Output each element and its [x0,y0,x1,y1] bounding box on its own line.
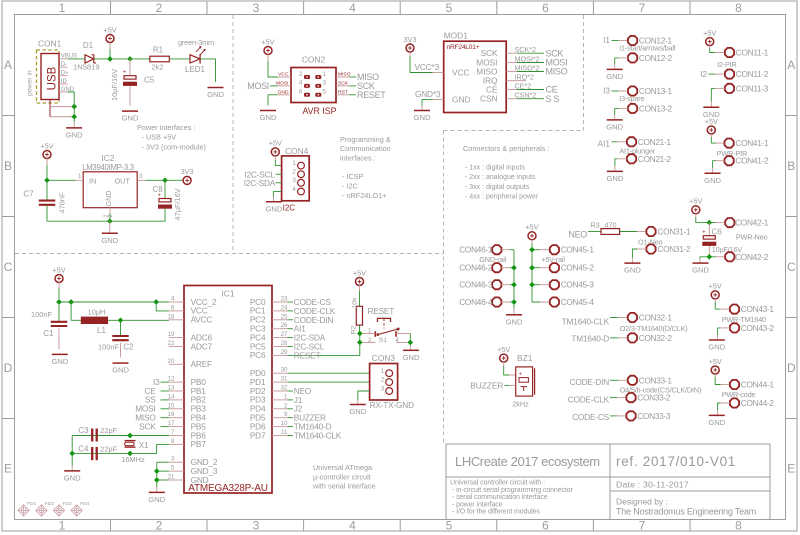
svg-text:IN: IN [89,176,96,185]
svg-text:25: 25 [281,313,288,320]
svg-text:21: 21 [168,474,175,481]
svg-text:+5V: +5V [705,117,718,126]
ground I2C header [265,197,282,213]
svg-text:1: 1 [59,1,66,15]
resistor R2 10k [351,297,363,334]
svg-text:5: 5 [446,519,453,533]
net RESET wire [288,342,360,360]
svg-text:3: 3 [171,456,175,463]
net labels PB0-PB5 [135,377,169,432]
svg-text:CON33-1: CON33-1 [639,375,673,385]
svg-text:3: 3 [253,519,260,533]
svg-text:23: 23 [281,296,288,303]
svg-text:- 1xx : digital inputs: - 1xx : digital inputs [465,165,525,172]
ground under CON1 [66,92,83,140]
connector group CON12 (I1) [603,35,676,81]
wires regulator section [44,177,183,224]
svg-text:The Nostradomus Engineering Te: The Nostradomus Engineering Team [616,507,756,517]
svg-text:I1: I1 [603,35,610,45]
svg-text:7: 7 [639,1,646,15]
svg-text:AVR ISP: AVR ISP [302,106,336,116]
connector group CON46 (GND rail) [459,245,523,327]
svg-text:2: 2 [156,519,163,533]
svg-text:OUT: OUT [115,176,131,185]
svg-text:CON11-2: CON11-2 [736,69,769,79]
svg-text:2: 2 [156,1,163,15]
svg-text:22pF: 22pF [100,426,117,435]
svg-text:MISO*2: MISO*2 [515,63,540,72]
svg-text:47µF/16V: 47µF/16V [173,188,182,220]
svg-text:I3: I3 [603,86,610,96]
capacitor C7 470nF [23,190,66,214]
connector group CON41 (PWR-PIR) [704,117,769,185]
svg-text:1: 1 [292,160,296,167]
crystal X1 16MHz [121,441,149,464]
capacitor C5 10uF/16V [110,59,155,123]
wires I2C header [244,169,282,197]
svg-text:BZ1: BZ1 [517,353,533,363]
svg-text:FD1: FD1 [27,501,36,507]
ground serial connector [349,391,369,416]
svg-text:CON42-1: CON42-1 [735,218,769,228]
svg-text:AI1: AI1 [598,139,611,149]
svg-text:- 2xx : analogue inputs: - 2xx : analogue inputs [465,174,536,181]
svg-text:CE*2: CE*2 [515,81,532,90]
svg-text:C6: C6 [712,227,723,236]
svg-text:green-3mm: green-3mm [178,38,214,47]
svg-text:8: 8 [735,519,742,533]
svg-text:PD7: PD7 [250,430,266,440]
svg-text:E: E [4,462,12,476]
net labels MISO SCK RESET [349,72,386,100]
svg-text:19: 19 [168,331,175,338]
svg-text:CON11-1: CON11-1 [736,48,769,58]
svg-text:LED1: LED1 [185,65,206,74]
note universal atmega [312,463,375,490]
svg-text:CODE-DIN: CODE-DIN [570,377,610,387]
svg-text:GND: GND [265,204,282,213]
connector CON4 I2C [282,146,310,213]
capacitor C1 100nF [31,302,69,366]
svg-text:D1: D1 [83,41,94,50]
supply 3V3 (module) [404,35,433,73]
svg-text:2kHz: 2kHz [512,399,529,408]
svg-text:CON45-3: CON45-3 [561,280,595,290]
svg-text:C2: C2 [123,343,134,352]
svg-text:GND: GND [66,131,83,140]
svg-text:GND: GND [349,407,366,416]
svg-text:CON31-1: CON31-1 [657,227,691,237]
svg-text:nRF24L01+: nRF24L01+ [447,44,480,51]
svg-text:+5V: +5V [497,345,510,354]
supply +5V (reset) [353,268,366,306]
svg-text:D: D [4,361,13,375]
IC IC1 ATMEGA328P-AU [168,286,288,494]
svg-text:PC6: PC6 [250,350,266,360]
svg-text:9: 9 [284,411,288,418]
svg-text:Universal ATmega: Universal ATmega [313,463,373,472]
ground module [414,106,431,123]
svg-text:CODE-CLK: CODE-CLK [568,394,610,404]
svg-text:Designed by :: Designed by : [616,497,668,507]
buzzer BZ1 2kHz [470,345,534,409]
connector CON3 serial [370,353,414,410]
svg-text:RESET: RESET [367,306,394,316]
svg-text:GND: GND [708,343,725,352]
supply +5V (MCU) [52,265,65,302]
svg-text:- USB +5V: - USB +5V [142,133,177,142]
svg-text:GND: GND [452,94,470,104]
svg-text:C: C [4,260,13,274]
svg-text:µ-controller circuit: µ-controller circuit [313,472,371,481]
svg-text:22: 22 [168,340,175,347]
note programming interfaces [340,135,391,200]
svg-text:CON1: CON1 [38,39,62,49]
svg-text:CON33-3: CON33-3 [637,411,671,421]
svg-text:470: 470 [604,220,616,229]
svg-text:4: 4 [299,80,303,87]
svg-text:27: 27 [281,331,288,338]
svg-text:+: + [702,230,705,236]
net GND*3 wire [415,89,441,106]
svg-text:1: 1 [323,71,327,78]
svg-text:S S: S S [546,94,560,104]
svg-text:5: 5 [171,465,175,472]
svg-text:CON2: CON2 [302,55,326,65]
connector group CON33 (CODE) [568,375,701,422]
svg-text:CON13-2: CON13-2 [639,103,673,113]
svg-text:GND: GND [112,366,129,375]
connector group CON45 (+5V rail) [525,223,594,307]
svg-text:16: 16 [168,411,175,418]
svg-text:CON3: CON3 [372,353,396,363]
svg-text:LHCreate 2017 ecosystem: LHCreate 2017 ecosystem [455,454,600,469]
svg-text:VCC*3: VCC*3 [415,62,440,72]
resistor R1 2k2 [150,46,170,72]
svg-text:C4: C4 [78,444,89,453]
svg-text:CON45-1: CON45-1 [561,245,595,255]
svg-text:5: 5 [446,1,453,15]
svg-text:24: 24 [281,304,288,311]
svg-text:O2/3-TM1640(D/CLK): O2/3-TM1640(D/CLK) [620,324,688,333]
svg-text:GND: GND [704,176,721,185]
svg-text:Connectors & peripherals :: Connectors & peripherals : [463,144,549,153]
svg-text:12: 12 [168,376,175,383]
svg-text:I1-start/arrows/ball: I1-start/arrows/ball [619,44,676,53]
svg-text:S1: S1 [379,337,387,344]
svg-text:6: 6 [542,519,549,533]
svg-text:R1: R1 [153,46,164,55]
svg-text:CON21-2: CON21-2 [638,154,672,164]
svg-text:+: + [123,70,126,76]
svg-text:IRQ*2: IRQ*2 [515,73,534,82]
svg-text:E: E [787,462,795,476]
svg-text:3: 3 [381,386,385,393]
svg-text:ref. 2017/010-V01: ref. 2017/010-V01 [616,454,736,469]
svg-text:CON45-4: CON45-4 [561,297,595,307]
svg-text:GND: GND [506,317,523,326]
LED LED1 green-3mm [169,38,224,99]
svg-text:I2: I2 [700,69,707,79]
svg-text:10µF/16V: 10µF/16V [110,69,119,101]
svg-text:GND: GND [122,114,139,123]
svg-text:2: 2 [299,71,303,78]
svg-text:Universal controller circuit w: Universal controller circuit with : [450,480,545,487]
svg-text:CON46-3: CON46-3 [459,280,493,290]
svg-text:11: 11 [281,429,288,436]
svg-text:29: 29 [281,349,288,356]
svg-text:L1: L1 [97,326,106,335]
svg-text:GND: GND [64,474,81,483]
note power interfaces [137,123,206,152]
svg-text:CON33-2: CON33-2 [637,393,671,403]
svg-text:A: A [787,58,795,72]
svg-text:CON41-2: CON41-2 [735,156,769,166]
svg-text:CON43-2: CON43-2 [741,323,775,333]
svg-text:- in-circuit serial programmin: - in-circuit serial programming connecto… [452,487,574,494]
svg-text:R3: R3 [590,220,599,229]
wires crystal section [64,433,169,483]
svg-text:GND: GND [708,418,725,427]
svg-text:Programming &: Programming & [340,135,391,144]
svg-text:- 4xx : peripheral power: - 4xx : peripheral power [465,194,539,201]
svg-text:MOD1: MOD1 [444,31,469,41]
svg-text:1: 1 [284,393,288,400]
svg-text:+5V-rail: +5V-rail [541,255,565,264]
svg-text:CON11-3: CON11-3 [736,83,769,93]
svg-text:GND: GND [51,357,68,366]
svg-text:8: 8 [171,438,175,445]
svg-text:6: 6 [171,304,175,311]
wires AVR ISP left [247,81,277,106]
svg-text:CON4: CON4 [285,146,309,156]
svg-text:+5V: +5V [52,265,65,274]
svg-text:32: 32 [281,385,288,392]
title block [446,444,770,520]
svg-text:I2C-SDA: I2C-SDA [244,178,276,188]
svg-text:+5V: +5V [689,197,702,206]
svg-text:10k: 10k [352,297,359,309]
svg-text:USB: USB [46,66,58,90]
svg-text:MOSI: MOSI [247,81,269,91]
svg-text:14: 14 [168,393,175,400]
capacitor C6 and connector CON42 (PWR-Neo) [689,197,769,275]
supply +5V (regulator input) [40,141,53,180]
svg-text:+5V: +5V [709,282,722,291]
svg-text:BUZZER: BUZZER [470,380,503,390]
svg-text:CON21-1: CON21-1 [638,137,672,147]
wires +5V to VCC pins [56,299,169,311]
svg-text:- 3xx : digital outputs: - 3xx : digital outputs [465,184,530,191]
svg-text:17: 17 [168,420,175,427]
capacitor C2 100nF [98,320,134,374]
capacitor C8 47uF/16V [153,185,183,221]
svg-text:4: 4 [292,186,296,193]
svg-text:CODE-CS: CODE-CS [572,412,610,422]
svg-text:CON44-1: CON44-1 [741,380,775,390]
connector CON1 (USB, power in) [27,39,78,117]
svg-text:GND: GND [692,266,709,275]
net labels PD0-PD7 [288,373,370,440]
svg-text:GND: GND [207,90,224,99]
connector CON2 AVR ISP [276,55,351,116]
svg-text:- serial communication interfa: - serial communication interface [452,494,548,501]
svg-text:15: 15 [168,402,175,409]
svg-text:3V3: 3V3 [181,167,194,176]
svg-text:CON44-2: CON44-2 [741,398,775,408]
svg-text:3V3: 3V3 [404,35,417,44]
net labels PC0-PC5 [288,297,336,352]
svg-text:CON43-1: CON43-1 [741,304,775,314]
supply +5V (AVR ISP) [261,37,277,77]
svg-text:IC1: IC1 [221,289,234,299]
svg-text:VCC: VCC [452,67,470,77]
svg-text:GND: GND [414,113,431,122]
svg-text:I3-spare: I3-spare [619,94,644,103]
svg-text:- I2C: - I2C [342,182,358,191]
svg-text:GND: GND [260,113,277,122]
svg-text:CON46-4: CON46-4 [459,297,493,307]
ground MCU rail [148,462,169,504]
connector group CON32 (TM1640) [562,313,688,344]
fiducial marks FD1-FD4 [18,501,90,516]
svg-text:I2-PIR: I2-PIR [717,60,736,69]
svg-text:28: 28 [281,340,288,347]
svg-text:- I/O for the different module: - I/O for the different modules [452,509,540,516]
svg-text:C3: C3 [78,426,89,435]
svg-text:CON42-2: CON42-2 [735,252,769,262]
svg-text:2k2: 2k2 [152,63,164,72]
svg-text:- power interface: - power interface [452,501,503,508]
svg-text:C: C [787,260,796,274]
svg-text:C5: C5 [144,76,155,85]
svg-text:1: 1 [59,519,66,533]
svg-text:1: 1 [78,173,82,180]
svg-text:6: 6 [299,89,303,96]
svg-text:2: 2 [292,169,296,176]
svg-text:+5V: +5V [269,139,282,148]
svg-text:X1: X1 [139,441,149,450]
svg-text:GND*3: GND*3 [415,89,441,99]
svg-text:AVCC: AVCC [191,315,213,325]
svg-text:1N5819: 1N5819 [73,63,100,72]
svg-text:7: 7 [639,519,646,533]
svg-text:26: 26 [281,322,288,329]
connector group CON44 (PWR-code) [708,357,774,427]
svg-text:interfaces :: interfaces : [340,153,376,162]
svg-text:100nF: 100nF [31,310,52,319]
svg-text:FD3: FD3 [63,501,72,507]
svg-text:GND: GND [101,236,118,245]
svg-text:31: 31 [281,376,288,383]
svg-text:7: 7 [171,429,175,436]
svg-text:20: 20 [168,358,175,365]
svg-text:CSN: CSN [480,94,498,104]
svg-text:100nF: 100nF [98,343,119,352]
ground regulator rail [101,221,118,245]
svg-text:ID: ID [61,79,68,85]
module net labels [515,45,568,104]
svg-text:Date : 30-11-2017: Date : 30-11-2017 [616,480,689,490]
svg-text:+5V: +5V [40,141,53,150]
svg-text:I2C: I2C [283,204,296,213]
svg-text:+5V: +5V [261,37,274,46]
ground AVR ISP [260,111,277,123]
svg-text:PB7: PB7 [191,439,207,449]
svg-text:8: 8 [735,1,742,15]
svg-text:GND: GND [606,174,623,183]
svg-text:GND: GND [403,353,420,362]
svg-text:GND: GND [148,495,165,504]
svg-text:10µH: 10µH [88,307,106,316]
svg-text:30: 30 [281,367,288,374]
svg-text:GND-rail: GND-rail [479,255,506,264]
svg-text:ADC7: ADC7 [191,341,213,351]
svg-text:SCK*2: SCK*2 [515,45,536,54]
svg-text:2: 2 [381,377,385,384]
svg-text:PWR-Neo: PWR-Neo [736,233,768,242]
svg-text:- nRF24LO1+: - nRF24LO1+ [342,191,386,200]
svg-text:+5V: +5V [709,357,722,366]
voltage regulator IC2 LM3940IMP-3.3 [76,153,146,218]
svg-text:TM1640-D: TM1640-D [571,334,609,344]
svg-text:Power interfaces :: Power interfaces : [137,123,195,132]
svg-text:CON41-1: CON41-1 [735,138,769,148]
region separator power area [15,15,444,254]
inductor L1 10uH [71,302,169,335]
svg-text:C7: C7 [23,190,34,199]
region separator connectors area [444,15,584,444]
svg-text:10: 10 [281,420,288,427]
svg-text:6: 6 [542,1,549,15]
supply 3V3 (regulator output) [181,167,194,184]
svg-text:3: 3 [139,173,143,180]
svg-text:NEO: NEO [568,230,587,240]
svg-text:2: 2 [108,214,114,217]
svg-text:CON45-2: CON45-2 [561,263,595,273]
switch S1 reset [357,306,413,345]
svg-text:GND: GND [624,266,641,275]
svg-text:+5V: +5V [103,25,116,34]
supply +5V (USB rail) [103,25,116,59]
svg-text:LM3940IMP-3.3: LM3940IMP-3.3 [82,163,134,172]
capacitor C4 22pF [78,444,117,460]
svg-text:FD2: FD2 [45,501,54,507]
svg-text:1: 1 [381,368,385,375]
svg-text:GND: GND [606,123,623,132]
svg-text:with serial interface: with serial interface [312,481,375,490]
svg-text:3: 3 [253,1,260,15]
svg-text:CON46-1: CON46-1 [459,245,493,255]
svg-text:- ICSP: - ICSP [342,172,364,181]
svg-text:+: + [519,372,522,378]
svg-text:CON32-2: CON32-2 [639,333,673,343]
resistor R3 470 and connector CON31 (Neo) [568,220,691,274]
svg-text:RX-TX-GND: RX-TX-GND [370,400,414,410]
svg-text:GND: GND [106,191,113,207]
svg-text:C1: C1 [43,329,54,338]
svg-text:Communication: Communication [340,144,391,153]
svg-text:+5V: +5V [525,223,538,232]
svg-text:5: 5 [323,89,327,96]
connector group CON13 (I3) [603,86,672,132]
svg-text:4: 4 [171,296,175,303]
svg-text:13: 13 [168,385,175,392]
svg-text:22pF: 22pF [100,444,117,453]
svg-text:470nF: 470nF [58,192,67,213]
svg-text:RESET: RESET [357,90,386,100]
svg-text:D: D [787,361,796,375]
